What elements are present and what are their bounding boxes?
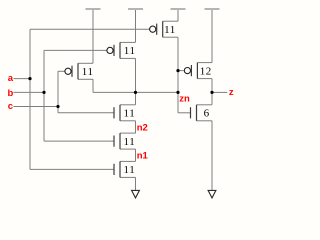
svg-text:12: 12	[200, 65, 212, 77]
svg-text:n2: n2	[137, 122, 148, 133]
svg-text:z: z	[229, 87, 234, 98]
svg-text:11: 11	[82, 66, 94, 78]
svg-text:c: c	[8, 101, 13, 112]
svg-text:11: 11	[124, 45, 136, 57]
svg-text:6: 6	[204, 108, 210, 120]
svg-text:n1: n1	[137, 151, 149, 162]
svg-text:zn: zn	[179, 94, 190, 105]
svg-text:b: b	[8, 88, 14, 99]
svg-text:11: 11	[164, 24, 176, 36]
svg-text:11: 11	[124, 136, 136, 148]
svg-text:11: 11	[124, 164, 136, 176]
svg-text:11: 11	[124, 108, 136, 120]
svg-text:a: a	[8, 73, 14, 84]
